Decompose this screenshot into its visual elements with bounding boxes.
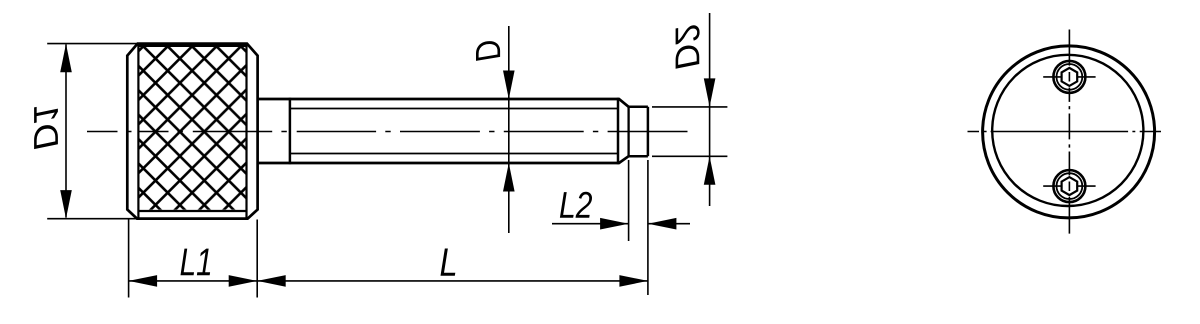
dimension D1 arrowhead up xyxy=(60,44,72,72)
dimension D1 extension line top xyxy=(47,43,136,45)
thread root line bottom xyxy=(290,153,618,155)
dimension D2 arrowhead down xyxy=(704,78,716,107)
label D xyxy=(476,41,500,61)
thread end edge xyxy=(617,98,620,164)
dimension L1 arrowhead left xyxy=(129,275,158,287)
pin bottom: hex socket xyxy=(1062,177,1078,195)
dimension L2 extension line left xyxy=(628,160,630,241)
shaft bottom outline with end chamfer xyxy=(258,156,629,163)
head chamfer inner edge left xyxy=(137,45,139,219)
end view vertical centerline xyxy=(1068,30,1070,234)
pin top: inner circle xyxy=(1057,64,1083,90)
dimension D2 extension line top xyxy=(652,106,727,108)
dimension D arrowhead down xyxy=(503,71,515,100)
dimension L2 line right tail xyxy=(648,223,690,225)
tip chamfer edge xyxy=(627,107,629,156)
end view outer circle xyxy=(983,46,1155,218)
dimension D1 extension line bottom xyxy=(47,218,136,220)
thread start edge xyxy=(289,98,292,164)
dimension L arrowhead left xyxy=(257,275,286,287)
label L2 xyxy=(560,192,592,218)
dimension D2 extension line bottom xyxy=(652,155,727,157)
tip end face xyxy=(647,107,650,156)
dimension D1 line xyxy=(65,45,67,218)
dimension D2 line xyxy=(709,13,711,206)
head inner edge bottom xyxy=(138,210,247,212)
label D1 xyxy=(34,107,58,149)
dimension L2 line left tail xyxy=(552,223,629,225)
dimension D arrowhead up xyxy=(503,163,515,192)
label L xyxy=(441,249,456,276)
pin bottom: inner circle xyxy=(1057,173,1083,199)
knurl cross-hatch xyxy=(140,46,246,210)
shaft top outline with end chamfer xyxy=(258,99,629,107)
tip bottom edge xyxy=(629,155,648,158)
label L1 xyxy=(181,249,211,276)
dimension L arrowhead right xyxy=(619,275,648,287)
thread root line top xyxy=(290,108,618,110)
dimension L1 arrowhead right xyxy=(229,275,258,287)
dimension L2 arrowhead pointing left xyxy=(648,218,677,230)
dimension L2 arrowhead pointing right xyxy=(600,218,629,230)
pin top: crosshair xyxy=(1043,76,1095,78)
dimension L1 line xyxy=(129,280,258,282)
dimension D line xyxy=(508,26,510,233)
centerline of screw axis (side view) xyxy=(87,131,688,133)
label D2 xyxy=(676,25,700,68)
pin top: hex socket xyxy=(1062,68,1078,86)
head inner edge top xyxy=(138,45,247,47)
pin bottom: outer circle xyxy=(1053,170,1085,202)
pin top: outer circle xyxy=(1053,61,1085,93)
end view inner circle xyxy=(992,55,1143,206)
tip top edge xyxy=(629,106,648,109)
shared extension line L/L2 right xyxy=(647,160,649,295)
head chamfer inner edge right xyxy=(245,45,247,219)
shared extension line L1/L xyxy=(256,220,258,298)
dimension D2 arrowhead up xyxy=(704,156,716,185)
knurled head outline xyxy=(127,44,257,219)
dimension L1 extension line left xyxy=(128,220,130,298)
dimension L line xyxy=(257,280,648,282)
end view horizontal centerline xyxy=(968,131,1162,133)
dimension D1 arrowhead down xyxy=(60,190,72,219)
pin bottom: crosshair xyxy=(1043,185,1095,187)
